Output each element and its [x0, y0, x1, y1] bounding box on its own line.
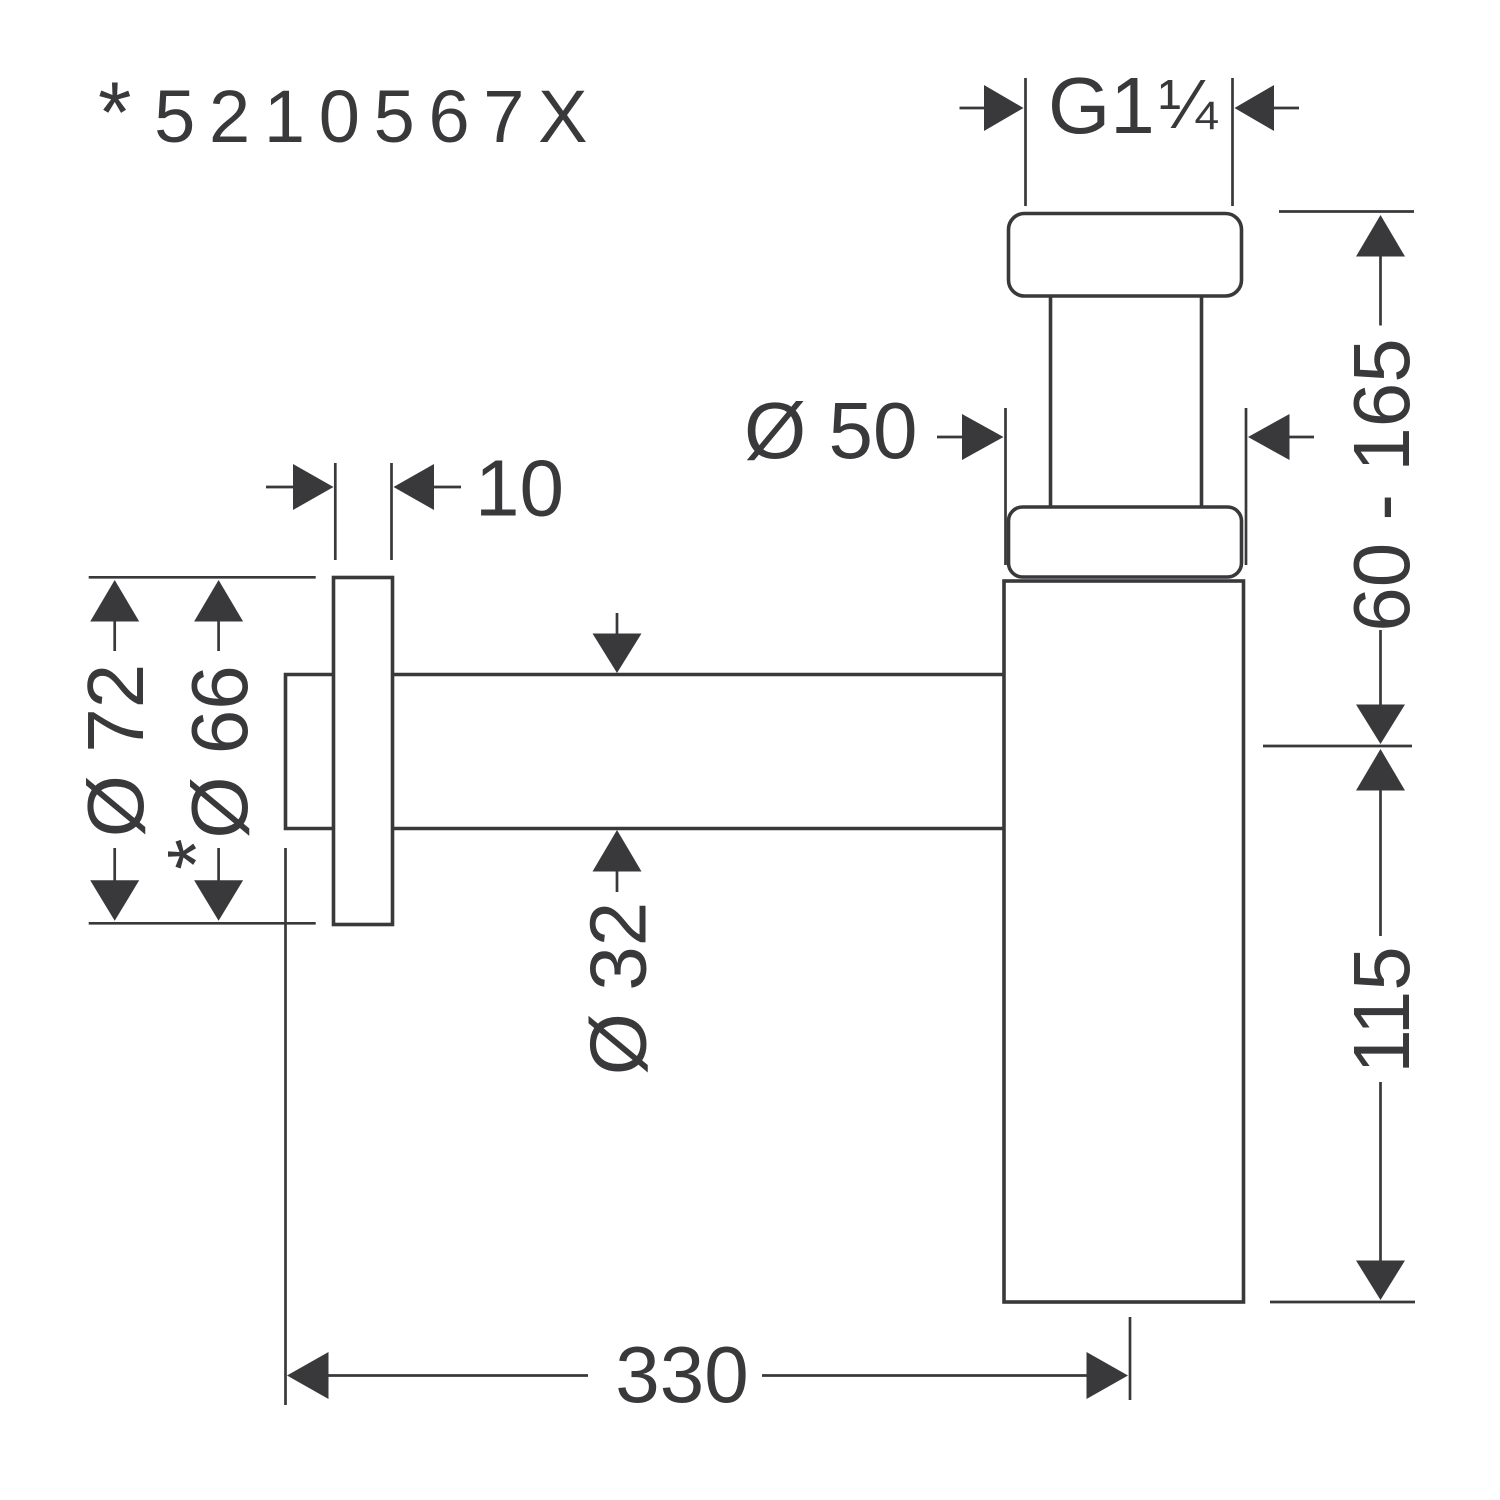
pipe stub left of wall flange: [286, 675, 334, 829]
dia 66 bottom arrow: [217, 848, 220, 881]
trap body: [1004, 581, 1244, 1302]
svg-text:115: 115: [1337, 946, 1426, 1074]
10 extension line left: [334, 463, 337, 560]
lower nut flange: [1009, 507, 1242, 577]
dia 50 right arrow: [1248, 414, 1290, 460]
115 bottom arrow: [1379, 1082, 1382, 1261]
dia 50 left arrow: [937, 436, 964, 439]
svg-text:*5210567X: *5210567X: [98, 65, 601, 161]
dia 32 top arrow: [616, 613, 619, 634]
330 right arrow: [762, 1374, 1087, 1377]
dia 72 / dia 66 top extension line: [89, 576, 316, 579]
G1 1/4 right arrow: [1235, 85, 1275, 131]
wire horizontal pipe bottom line: [393, 827, 1005, 831]
svg-text:*Ø 66: *Ø 66: [151, 665, 264, 870]
vertical inlet pipe left line: [1049, 290, 1053, 512]
svg-text:60 - 165: 60 - 165: [1337, 338, 1426, 632]
115 top arrow: [1356, 749, 1405, 791]
wall flange: [334, 578, 393, 925]
dia 50 extension line left: [1004, 408, 1007, 565]
svg-text:Ø 72: Ø 72: [71, 664, 160, 837]
dia 72 / dia 66 bottom extension line: [89, 922, 316, 925]
10 right arrow: [394, 464, 435, 510]
60-165 mid tick line: [1263, 745, 1412, 748]
svg-text:Ø 50: Ø 50: [744, 386, 917, 475]
dia 66 top arrow: [194, 580, 243, 622]
115 bottom tick line: [1270, 1301, 1415, 1304]
dia 72 bottom arrow: [113, 848, 116, 881]
10 left arrow: [266, 486, 294, 489]
60-165 bottom arrow: [1379, 630, 1382, 705]
330 left extension line: [284, 848, 287, 1405]
G1 1/4 dimension extension line left: [1024, 78, 1027, 206]
svg-text:10: 10: [475, 444, 564, 533]
svg-text:G1¼: G1¼: [1048, 61, 1219, 150]
60-165 top extension line: [1279, 210, 1414, 213]
G1 1/4 left arrow: [960, 107, 987, 110]
top nut flange: [1009, 214, 1242, 297]
vertical inlet pipe right line: [1200, 290, 1204, 512]
10 extension line right: [390, 463, 393, 560]
svg-text:Ø 32: Ø 32: [574, 902, 663, 1075]
dia 72 top arrow: [90, 580, 139, 622]
wire horizontal pipe top line: [393, 673, 1005, 677]
G1 1/4 dimension extension line right: [1231, 78, 1234, 206]
60-165 top arrow: [1356, 215, 1405, 257]
svg-text:330: 330: [615, 1330, 748, 1419]
dia 50 extension line right: [1245, 408, 1248, 565]
dia 32 bottom arrow: [593, 830, 642, 872]
330 left arrow: [287, 1352, 329, 1399]
330 right tick line: [1129, 1317, 1132, 1400]
